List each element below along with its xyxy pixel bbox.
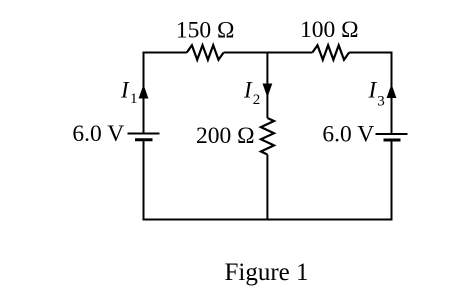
svg-text:I: I <box>243 78 253 103</box>
svg-text:1: 1 <box>130 91 138 107</box>
battery V2 short plate <box>384 139 401 142</box>
wire: top-right segment from 100 ohm to right branch corner <box>349 53 391 135</box>
wire: left branch lower segment battery to bottom <box>143 140 145 220</box>
arrow I3 current direction up <box>387 84 397 98</box>
battery V2 long plate <box>376 133 408 135</box>
svg-text:6.0 V: 6.0 V <box>322 122 374 148</box>
arrow I2 current direction down <box>263 84 273 98</box>
wire: middle branch lower segment resistor to bottom <box>266 155 268 220</box>
svg-text:3: 3 <box>377 93 385 109</box>
svg-text:I: I <box>368 78 378 103</box>
svg-text:150 Ω: 150 Ω <box>176 18 235 44</box>
arrow I1 current direction up <box>139 85 149 99</box>
svg-text:2: 2 <box>253 92 260 108</box>
wire: bottom rail <box>143 219 393 221</box>
resistor R2 100 ohm zigzag <box>312 45 349 60</box>
svg-text:200 Ω: 200 Ω <box>196 123 255 149</box>
wire: top-left segment from left branch corner to 150 ohm resistor <box>144 53 187 134</box>
wire: right branch lower segment battery to bottom <box>391 140 393 220</box>
svg-text:100 Ω: 100 Ω <box>300 17 359 43</box>
svg-text:6.0 V: 6.0 V <box>72 121 124 147</box>
wire: top middle segment from 150 ohm to 100 ohm across node <box>224 52 313 54</box>
resistor R3 200 ohm vertical zigzag <box>261 118 274 155</box>
battery V1 long plate <box>128 133 160 135</box>
node A: top middle junction <box>266 53 268 119</box>
battery V1 short plate <box>135 138 153 141</box>
svg-text:I: I <box>120 78 130 103</box>
svg-text:Figure 1: Figure 1 <box>224 259 308 286</box>
resistor R1 150 ohm zigzag <box>187 45 224 60</box>
